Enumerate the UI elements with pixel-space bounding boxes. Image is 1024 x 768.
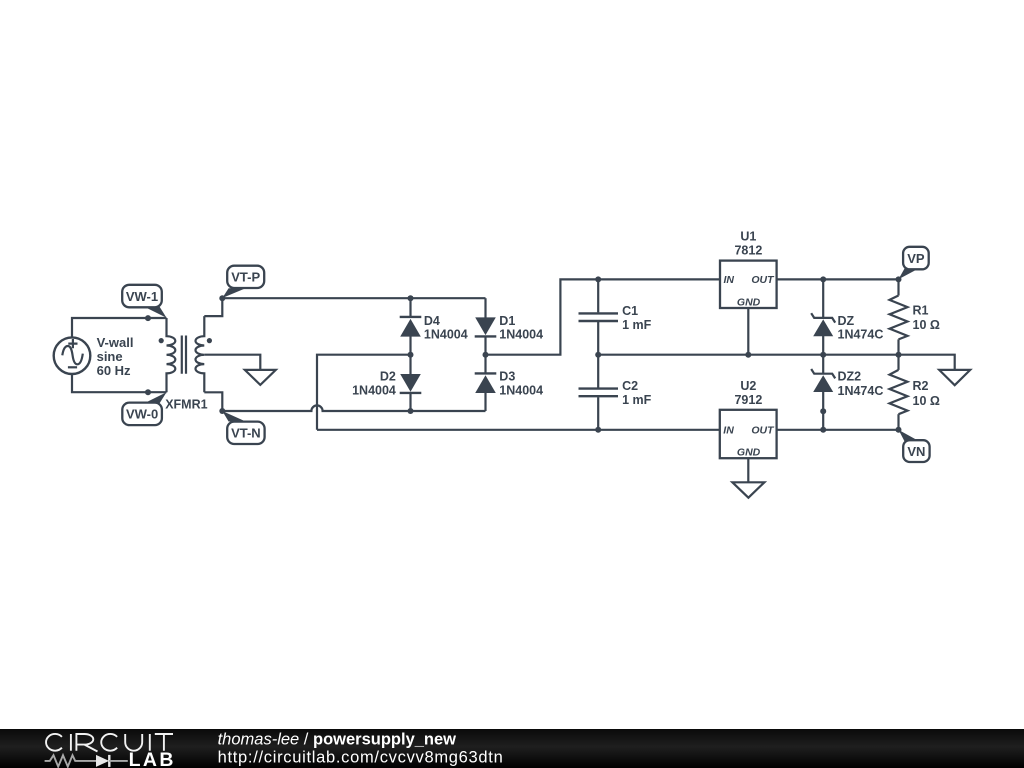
svg-text:C2: C2 bbox=[622, 379, 638, 393]
svg-text:DZ2: DZ2 bbox=[838, 370, 862, 384]
wire D3 bottom lead bbox=[484, 393, 486, 411]
transformer XFMR1 secondary winding bbox=[195, 316, 204, 392]
wire U2 OUT to VN rail bbox=[777, 429, 899, 431]
wire bridge mid-right up to U1 IN rail bbox=[486, 279, 721, 354]
svg-text:GND: GND bbox=[737, 296, 761, 308]
svg-text:IN: IN bbox=[723, 424, 734, 436]
wire D4 top lead bbox=[409, 298, 411, 318]
V1 value label "V-wall sine 60 Hz" bbox=[97, 335, 134, 378]
wire C2 bottom lead bbox=[597, 397, 599, 430]
transformer XFMR1 core bbox=[182, 336, 186, 374]
label DZ2 bbox=[838, 370, 884, 398]
wire bridge mid-left bbox=[317, 355, 411, 430]
label R1 bbox=[913, 303, 940, 332]
wire R2 top lead bbox=[897, 355, 899, 370]
svg-text:VT-P: VT-P bbox=[231, 270, 260, 285]
svg-text:1N4004: 1N4004 bbox=[352, 384, 396, 398]
svg-text:D1: D1 bbox=[499, 314, 515, 328]
wire D1 to D3 bbox=[484, 336, 486, 374]
label C1 bbox=[622, 304, 652, 332]
svg-text:U1: U1 bbox=[740, 230, 756, 244]
svg-text:C1: C1 bbox=[622, 304, 638, 318]
logo diode bbox=[96, 755, 128, 767]
svg-text:VP: VP bbox=[907, 251, 925, 266]
label D2 bbox=[352, 370, 396, 398]
label D3 bbox=[499, 370, 543, 398]
wire DZ to DZ2 bbox=[822, 336, 824, 373]
svg-text:10 Ω: 10 Ω bbox=[913, 394, 940, 408]
ground center tap bbox=[245, 370, 276, 385]
svg-text:D4: D4 bbox=[424, 314, 440, 328]
svg-text:sine: sine bbox=[97, 349, 123, 364]
wire transformer center tap to ground bbox=[204, 355, 260, 370]
wire D4 to D2 bbox=[409, 336, 411, 374]
op-amp U1 regulator box 7812 bbox=[720, 261, 777, 309]
node flag VN bbox=[899, 430, 930, 462]
svg-text:VT-N: VT-N bbox=[231, 426, 261, 441]
label U2 7912 bbox=[734, 379, 762, 407]
zener diode DZ2 bbox=[811, 369, 835, 392]
svg-text:1N4004: 1N4004 bbox=[499, 384, 543, 398]
label R2 bbox=[913, 379, 940, 408]
svg-text:7812: 7812 bbox=[734, 244, 762, 258]
svg-text:DZ: DZ bbox=[838, 314, 855, 328]
wire bottom rail to U2 IN bbox=[317, 429, 720, 431]
wire U1 OUT to VP rail bbox=[777, 278, 899, 280]
diode D3 bbox=[475, 373, 497, 393]
svg-text:10 Ω: 10 Ω bbox=[913, 318, 940, 332]
label D4 bbox=[424, 314, 468, 342]
svg-text:R2: R2 bbox=[913, 379, 929, 393]
label U1 7812 bbox=[734, 230, 762, 258]
svg-text:OUT: OUT bbox=[751, 274, 775, 286]
op-amp U2 regulator box 7912 bbox=[720, 410, 777, 459]
node flag VW-1 bbox=[122, 285, 166, 318]
label D1 bbox=[499, 314, 543, 342]
wire rail VT-P (bridge top) bbox=[222, 297, 485, 299]
svg-text:U2: U2 bbox=[740, 379, 756, 393]
wire D1 top lead bbox=[484, 298, 486, 318]
diode D4 bbox=[400, 317, 422, 337]
logo resistor squiggle bbox=[45, 755, 96, 766]
svg-text:V-wall: V-wall bbox=[97, 335, 134, 350]
svg-text:7912: 7912 bbox=[734, 393, 762, 407]
svg-text:LAB: LAB bbox=[129, 749, 176, 768]
svg-text:http://circuitlab.com/cvcvv8mg: http://circuitlab.com/cvcvv8mg63dtn bbox=[218, 749, 504, 767]
node flag VT-P bbox=[222, 266, 264, 298]
node flag VP bbox=[899, 247, 929, 279]
node flag VT-N bbox=[222, 411, 264, 444]
wire source bottom to transformer primary bbox=[72, 374, 167, 392]
label DZ bbox=[838, 314, 884, 341]
wire U1 GND lead bbox=[747, 308, 749, 355]
svg-text:D3: D3 bbox=[499, 370, 515, 384]
node flag VW-0 bbox=[122, 392, 166, 425]
capacitor C2 bbox=[579, 389, 619, 397]
svg-text:VW-1: VW-1 bbox=[126, 289, 158, 304]
junction dots bbox=[145, 276, 902, 432]
resistor R1 bbox=[890, 296, 908, 340]
svg-text:1N474C: 1N474C bbox=[838, 384, 884, 398]
wire D2 bottom lead bbox=[409, 392, 411, 411]
wire C1 top lead bbox=[597, 279, 599, 312]
svg-text:thomas-lee / powersupply_new: thomas-lee / powersupply_new bbox=[218, 731, 457, 749]
svg-text:60 Hz: 60 Hz bbox=[97, 363, 131, 378]
svg-text:1N474C: 1N474C bbox=[838, 327, 884, 341]
wire C2 top lead bbox=[597, 355, 599, 388]
svg-text:D2: D2 bbox=[380, 370, 396, 384]
svg-text:1 mF: 1 mF bbox=[622, 393, 652, 407]
svg-text:1 mF: 1 mF bbox=[622, 318, 652, 332]
wire rail VT-N with hop over crossing bbox=[222, 405, 485, 411]
svg-text:OUT: OUT bbox=[751, 424, 775, 436]
transformer polarity dot primary bbox=[159, 338, 164, 343]
capacitor C1 bbox=[579, 313, 619, 321]
ground rail symbol bbox=[939, 370, 970, 385]
wire C1 bottom lead bbox=[597, 322, 599, 355]
wire ground rail bbox=[598, 355, 955, 370]
wire secondary bottom to node VT-N bbox=[204, 392, 222, 411]
wire secondary top to node VT-P bbox=[204, 298, 222, 316]
svg-text:IN: IN bbox=[724, 274, 735, 286]
wire source top to transformer primary bbox=[72, 318, 167, 337]
ground U2 bbox=[732, 482, 764, 497]
wire R2 bottom lead bbox=[897, 414, 899, 430]
svg-text:1N4004: 1N4004 bbox=[499, 328, 543, 342]
label C2 bbox=[622, 379, 652, 407]
diode D2 bbox=[400, 374, 422, 393]
svg-text:GND: GND bbox=[737, 447, 761, 459]
svg-text:1N4004: 1N4004 bbox=[424, 328, 468, 342]
diode D1 bbox=[475, 317, 497, 336]
svg-text:R1: R1 bbox=[913, 303, 929, 317]
svg-text:VN: VN bbox=[907, 444, 925, 459]
resistor R2 bbox=[890, 370, 908, 414]
wire DZ top lead bbox=[822, 279, 824, 317]
zener diode DZ bbox=[811, 313, 835, 336]
voltage source V1 (V-wall sine 60 Hz) bbox=[54, 337, 91, 374]
transformer XFMR1 primary winding bbox=[167, 318, 176, 392]
wire R1 bottom lead bbox=[897, 339, 899, 354]
logo word CIRCUIT bbox=[46, 734, 173, 752]
svg-text:VW-0: VW-0 bbox=[126, 407, 158, 422]
svg-text:XFMR1: XFMR1 bbox=[165, 398, 207, 412]
transformer polarity dot secondary bbox=[207, 338, 212, 343]
wire U2 GND lead bbox=[747, 458, 749, 482]
wire DZ2 bottom lead bbox=[822, 392, 824, 430]
wire R1 top lead bbox=[897, 279, 899, 295]
